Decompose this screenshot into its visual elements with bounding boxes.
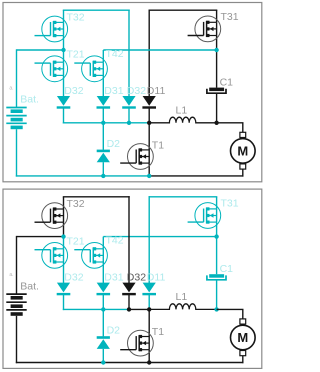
node mid rail / D31 / D2 junction [101,121,105,125]
battery Bat [6,107,26,109]
wire T31 drain lead [216,10,218,22]
diode D2 [97,150,110,153]
wire T1 drain lead [148,309,150,336]
svg-text:D32: D32 [127,85,146,97]
node mid rail / D11 / L1 / T1 junction [147,121,151,125]
transistor T31 [195,16,221,42]
wire top-left horizontal (T32 drain to col3) [63,196,130,198]
svg-text:Bat.: Bat. [20,94,39,106]
wire C1 bottom lead [216,94,218,123]
diode D31 [97,96,110,106]
wire bottom rail right segment [149,175,243,177]
svg-text:D2: D2 [107,138,121,150]
capacitor C1 [209,88,224,92]
wire T42 drain lead [102,237,104,249]
node T42/T31/C1 junction [214,48,218,52]
wire top-right horizontal (col4 to T31 drain) [149,9,218,11]
wire L1 rail to motor corner [217,122,244,124]
node bottom rail / D2 junction [101,360,105,364]
inductor L1 [149,304,216,310]
svg-text:T32: T32 [67,11,85,23]
diode D32' (right) [122,283,135,293]
wire top-right horizontal (col4 to T31 drain) [149,196,218,198]
wire D2 bottom lead [102,162,104,176]
wire T21 drain lead [63,50,65,62]
svg-text:L1: L1 [176,105,188,117]
node L1 / C1 / motor junction [214,121,218,125]
transistor T42' [82,243,108,269]
wire battery bottom lead [16,129,18,176]
wire motor bottom lead [242,355,244,363]
panel 1 frame [3,3,262,182]
wire col3 vertical (top wire down to D32) [128,196,130,283]
svg-text:T21: T21 [67,235,85,247]
svg-text:D32: D32 [64,272,83,284]
transistor T21 [42,56,68,82]
svg-text:T31: T31 [221,11,239,23]
wire mid rail left segment [63,308,129,310]
wire col4 upper vertical (top wire down to D11) [148,196,150,283]
diode D31' [97,283,110,293]
svg-text:M: M [237,144,248,159]
node mid rail / D32' junction [127,307,131,311]
wire D2 anode top lead [102,309,104,336]
diode D2' [97,336,110,339]
wire L1 rail to motor corner [217,308,244,310]
wire battery bottom lead [16,316,18,363]
node L1 / C1 / motor junction [214,307,218,311]
node bottom rail / T1 source junction [147,174,151,178]
wire mid rail left segment [63,122,129,124]
battery Bat' [6,293,26,295]
transistor T42 [82,56,108,82]
wire T32 source lead [63,222,65,236]
svg-text:T21: T21 [67,49,85,61]
inductor L1 [149,117,216,123]
wire mid rail right segment [129,308,149,310]
svg-text:D31: D31 [104,272,123,284]
wire battery positive rail [17,49,64,51]
wire C1 bottom lead [216,281,218,310]
node mid rail / D31 / D2 junction [101,307,105,311]
svg-text:D31: D31 [104,85,123,97]
node bottom rail / T1 source junction [147,360,151,364]
motor M' [240,319,246,324]
diode D11' [143,283,156,293]
svg-text:D11: D11 [147,272,166,284]
node battery/T32/T21 junction [61,48,65,52]
transistor T1 [127,144,153,170]
svg-text:T42: T42 [106,235,124,247]
wire T1 source lead [148,163,150,176]
wire C1 top lead [216,237,218,275]
transistor T1' [127,330,153,356]
wire top-left horizontal (T32 drain to col3) [63,9,130,11]
svg-text:a.: a. [9,85,13,91]
diode D11 [143,96,156,106]
svg-text:T1: T1 [152,326,164,338]
wire T42 source lead [102,262,104,283]
wire motor bottom lead [242,168,244,176]
wire D32 cathode to mid rail [63,108,65,123]
wire T42 drain to T31 source rail [103,236,216,238]
svg-text:a.: a. [9,272,13,278]
wire T32 drain lead [63,10,65,22]
wire T32 drain lead [63,197,65,209]
svg-text:T31: T31 [221,198,239,210]
wire bottom rail right segment [149,362,243,364]
svg-text:T1: T1 [152,139,164,151]
wire battery positive rail [17,236,64,238]
svg-text:T32: T32 [67,198,85,210]
node T42/T31/C1 junction [214,234,218,238]
node mid rail / D32' junction [127,121,131,125]
wire battery top lead [16,236,18,294]
diode D32 (left) [57,96,70,106]
node battery/T32/T21 junction [61,234,65,238]
svg-text:Bat.: Bat. [20,280,39,292]
svg-text:M: M [237,330,248,345]
wire T42 source lead [102,75,104,96]
wire col4 upper vertical (top wire down to D11) [148,10,150,97]
svg-text:L1: L1 [176,291,188,303]
wire D31 cathode lead [102,108,104,122]
wire col3 vertical (top wire down to D32) [128,10,130,97]
wire D11 cathode lead [148,108,150,122]
diode D32 (right) [122,96,135,106]
svg-text:D32: D32 [127,272,146,284]
wire T42 drain lead [102,50,104,62]
wire T31 source lead [216,36,218,51]
svg-text:D11: D11 [147,85,166,97]
wire battery top lead [16,49,18,107]
wire mid rail right segment [129,122,149,124]
panel 2 frame [3,189,262,368]
diode D32' (left) [57,283,70,293]
transistor T21' [42,243,68,269]
transistor T31' [195,203,221,229]
wire T31 drain lead [216,197,218,209]
wire D31 cathode lead [102,295,104,309]
svg-text:D32: D32 [64,85,83,97]
wire D11 cathode lead [148,295,150,309]
wire D2 bottom lead [102,349,104,363]
wire T1 drain lead [148,123,150,150]
wire T42 drain to T31 source rail [103,49,216,51]
wire T21 drain lead [63,237,65,249]
node mid rail / D11 / L1 / T1 junction [147,307,151,311]
svg-text:C1: C1 [220,263,234,275]
wire D32 cathode to mid rail [63,295,65,310]
svg-text:T42: T42 [106,48,124,60]
wire T21 source lead [63,262,65,283]
wire D2 anode top lead [102,123,104,150]
transistor T32 [42,16,68,42]
wire C1 top lead [216,50,218,88]
wire bottom rail left segment [16,175,149,177]
wire T1 source lead [148,350,150,363]
wire T32 source lead [63,36,65,50]
node bottom rail / D2 junction [101,174,105,178]
wire T31 source lead [216,222,218,237]
transistor T32' [42,203,68,229]
wire D32' cathode lead [128,108,130,122]
capacitor C1' [209,274,224,278]
svg-text:C1: C1 [220,76,234,88]
svg-text:D2: D2 [107,325,121,337]
wire bottom rail left segment [16,362,149,364]
wire D32' cathode lead [128,295,130,309]
wire T21 source lead [63,75,65,96]
wire motor top lead [242,309,244,319]
wire motor top lead [242,123,244,133]
motor M [240,132,246,137]
